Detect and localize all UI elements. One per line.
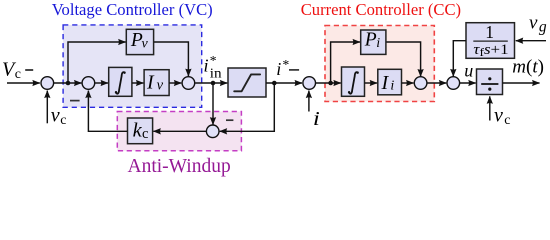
summing junction S5 (CC output sum)	[414, 77, 427, 90]
wire: i*in node down into S7 (anti-windup sum)	[212, 83, 214, 125]
node: i*in branch to anti-windup	[211, 81, 216, 86]
wire: output m(t)	[503, 82, 540, 84]
summing junction S4 (i* - i)	[303, 77, 316, 90]
svg-text:v: v	[494, 104, 503, 126]
block: saturation	[228, 68, 266, 97]
node: CC feedforward branch	[328, 81, 333, 86]
svg-text:c: c	[15, 67, 21, 82]
summing junction S3 (VC output sum)	[182, 77, 195, 90]
wire: vc up into divide block	[489, 96, 491, 120]
svg-text:τfs+1: τfs+1	[473, 42, 508, 59]
svg-text:i: i	[376, 36, 380, 51]
svg-text:i: i	[204, 56, 209, 76]
wire: vc feedback up into S1	[46, 91, 48, 124]
wire: i* node down and left into S7	[220, 83, 275, 131]
summing junction S7 (anti-windup difference)	[206, 125, 219, 138]
svg-text:P: P	[364, 30, 377, 51]
svg-text:g: g	[539, 19, 547, 36]
wire: Pi output down into S5	[386, 42, 421, 77]
svg-text:i: i	[313, 107, 320, 129]
block: grid-voltage filter 1/(tau_f s+1)	[466, 22, 515, 59]
Anti-Windup dashed region box	[117, 112, 241, 151]
svg-text:Anti-Windup: Anti-Windup	[127, 156, 230, 177]
block: kc	[128, 118, 153, 144]
block: Pi	[361, 30, 386, 55]
Current Controller (CC) dashed region box	[325, 26, 434, 102]
node: i* branch to anti-windup	[272, 81, 277, 86]
wire: VC feedforward up to Pv	[68, 42, 126, 83]
wire: CC feedforward up to Pi	[331, 42, 360, 83]
svg-text:v: v	[529, 12, 538, 33]
wire: filter output down into S6	[453, 41, 466, 77]
wire: S2 to integrator	[95, 82, 108, 84]
wire: saturation to S4, node at i*	[266, 82, 302, 84]
svg-text:c: c	[60, 113, 66, 128]
wire: vg input into filter	[516, 40, 546, 42]
svg-text:u: u	[464, 60, 473, 80]
wire: Vc input into summing junction S1	[7, 82, 40, 84]
Voltage Controller (VC) dashed region box	[63, 25, 202, 107]
block: Ii	[378, 69, 402, 95]
block: divide	[477, 69, 503, 95]
summing junction S2 (anti-windup subtract)	[82, 77, 95, 90]
node: VC feedforward branch	[66, 81, 71, 86]
wire: S6 to divide block	[460, 82, 476, 84]
svg-text:v: v	[157, 78, 164, 94]
svg-text:Current Controller (CC): Current Controller (CC)	[301, 0, 461, 19]
wire: CC integrator to Ii	[365, 82, 378, 84]
wire: S5 to S6	[427, 82, 446, 84]
wire: i measurement up into S4	[308, 91, 310, 112]
block: integrator (VC)	[109, 67, 132, 96]
wire: kc output left and up into S2	[88, 91, 127, 132]
svg-text:I: I	[146, 71, 155, 93]
svg-text:*: *	[283, 57, 290, 72]
minus sign at S7 right input	[226, 119, 233, 121]
block: Pv	[126, 29, 153, 54]
summing junction S1 (Vc - vc)	[41, 77, 54, 90]
svg-text:v: v	[51, 105, 60, 127]
summing junction S6 (u sum with vg feedforward)	[447, 77, 460, 90]
block: integrator (CC)	[342, 67, 365, 96]
block: Iv	[144, 70, 169, 96]
wire: S4 to CC integrator, node for CC feedforward	[316, 82, 341, 84]
svg-text:i: i	[390, 78, 394, 93]
minus sign at S4 left input	[289, 69, 299, 71]
wire: S3 to saturation block, node at i*in	[195, 82, 227, 84]
wire: S7 to kc	[153, 130, 206, 132]
svg-text:in: in	[210, 66, 222, 81]
minus sign below S2 (anti-windup input)	[70, 100, 80, 102]
svg-text:Voltage Controller (VC): Voltage Controller (VC)	[52, 0, 213, 19]
svg-text:i: i	[276, 59, 281, 79]
wire: Pv output down into S3	[154, 42, 189, 76]
svg-text:I: I	[381, 72, 390, 94]
svg-text:1: 1	[485, 22, 494, 42]
wire: Ii to S5	[402, 82, 414, 84]
svg-text:c: c	[504, 113, 510, 128]
wire: integrator to Iv	[132, 82, 144, 84]
wire: Iv to S3	[169, 82, 181, 84]
svg-text:m(t): m(t)	[512, 57, 544, 78]
svg-text:c: c	[142, 126, 148, 142]
svg-text:v: v	[142, 37, 149, 52]
minus sign at S1 left input	[25, 69, 33, 71]
wire: S1 to S2 with branch node	[54, 82, 82, 84]
